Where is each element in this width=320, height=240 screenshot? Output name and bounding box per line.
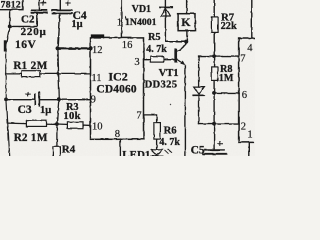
svg-text:C5: C5 — [191, 144, 205, 156]
svg-text:22k: 22k — [221, 21, 237, 32]
svg-text:LED1: LED1 — [122, 149, 150, 156]
svg-text:1: 1 — [247, 130, 252, 141]
svg-text:R2: R2 — [14, 132, 28, 144]
svg-text:VT1: VT1 — [159, 68, 179, 79]
svg-text:R4: R4 — [62, 143, 76, 155]
svg-text:220μ: 220μ — [21, 26, 47, 38]
svg-text:CD4060: CD4060 — [96, 84, 137, 96]
svg-text:R5: R5 — [148, 32, 161, 43]
svg-text:10: 10 — [92, 122, 103, 133]
svg-text:9: 9 — [91, 95, 96, 106]
svg-text:R1: R1 — [13, 60, 27, 72]
svg-text:1: 1 — [117, 18, 122, 29]
svg-text:1μ: 1μ — [71, 19, 82, 30]
svg-text:1M: 1M — [219, 73, 234, 84]
svg-text:C2: C2 — [21, 14, 35, 26]
svg-text:16: 16 — [122, 40, 133, 51]
svg-text:12: 12 — [92, 45, 103, 56]
svg-text:2: 2 — [241, 121, 246, 132]
svg-text:1M: 1M — [31, 132, 48, 144]
svg-text:K: K — [181, 15, 191, 29]
svg-text:7: 7 — [240, 54, 245, 65]
svg-text:4. 7k: 4. 7k — [146, 44, 167, 55]
svg-text:4: 4 — [247, 43, 253, 54]
svg-text:2M: 2M — [31, 60, 48, 72]
svg-text:VD1: VD1 — [132, 4, 151, 15]
svg-text:7812: 7812 — [1, 0, 21, 11]
svg-text:16V: 16V — [15, 39, 37, 51]
svg-text:6: 6 — [242, 90, 247, 101]
svg-text:8: 8 — [115, 129, 120, 140]
svg-text:3: 3 — [134, 57, 139, 68]
svg-text:IC2: IC2 — [108, 70, 127, 84]
svg-text:4. 7k: 4. 7k — [159, 137, 180, 148]
svg-text:DD325: DD325 — [145, 80, 178, 91]
svg-text:R6: R6 — [164, 125, 177, 136]
svg-text:10k: 10k — [63, 111, 80, 122]
svg-text:C3: C3 — [18, 104, 32, 116]
svg-text:11: 11 — [91, 73, 101, 84]
svg-text:1μ: 1μ — [40, 105, 51, 116]
svg-text:1N4001: 1N4001 — [125, 17, 157, 28]
svg-text:7: 7 — [136, 111, 141, 122]
